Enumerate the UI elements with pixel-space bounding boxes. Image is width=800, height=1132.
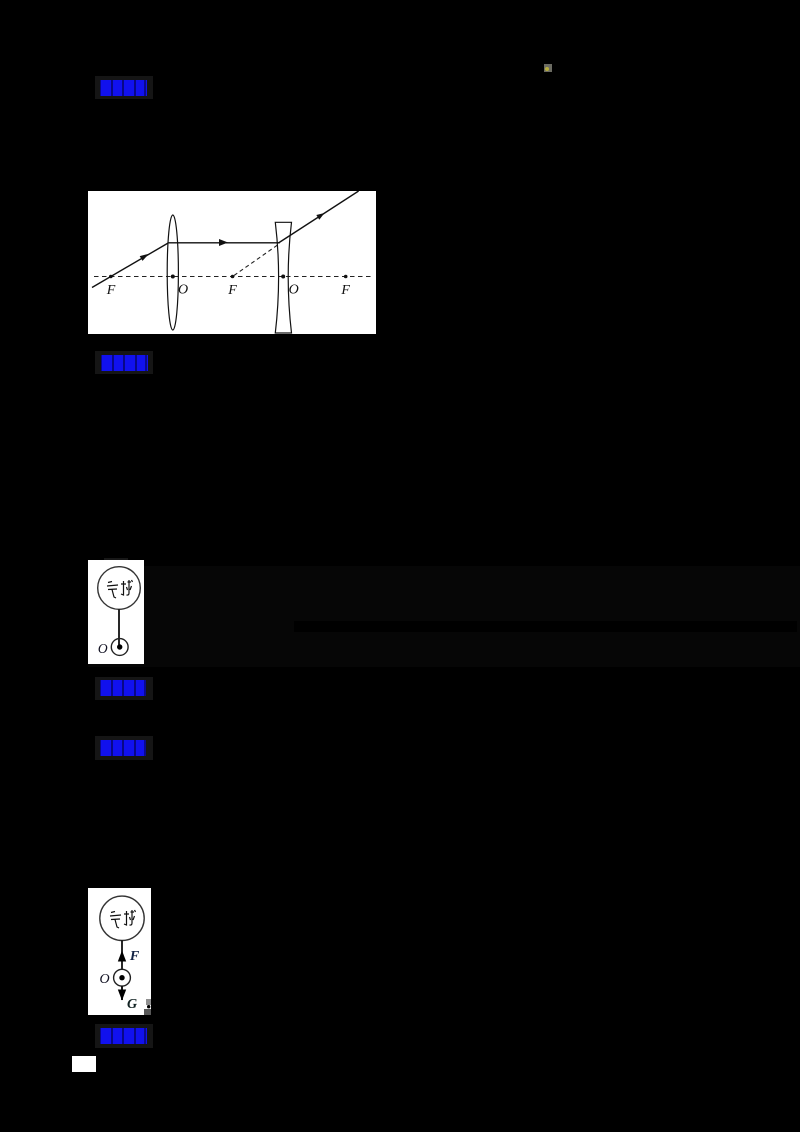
node pivot circle O [111,639,128,656]
node faint smudge above balloon box 1 [104,558,128,560]
node convex lens L1 [167,215,178,330]
node label back 3 [95,677,153,700]
svg-text:F: F [340,283,350,298]
node focal point F2 dot [231,275,235,279]
node concave lens L2 [275,222,291,333]
node focal point F3 dot [344,275,348,279]
node balloon text qi [110,912,121,929]
wire dashed back-extension to F [234,244,280,276]
node arrowhead on diverging ray [316,213,324,220]
node arrowhead on incoming ray [140,254,149,261]
wire horizontal ray between lenses [169,242,280,244]
node black fragment dot [147,1005,150,1008]
node icon square with yellow dot (top) [544,64,552,72]
svg-text:F: F [106,283,116,298]
node balloon figure box 2 [88,888,151,1015]
svg-text:F: F [227,283,237,298]
node band: faint table-row strip behind divider [88,566,800,667]
node balloon figure box 1 [88,560,144,664]
node lens center O1 dot [171,275,175,279]
wire incoming ray through F [92,243,169,288]
wire string [118,609,120,647]
node blue label 5 [100,1028,147,1044]
node lens center O2 dot [281,275,285,279]
node up arrowhead F [118,951,126,962]
node arrowhead on horizontal ray [219,239,228,246]
node label back 2 [95,351,153,374]
node blue label 3 [100,680,146,696]
node balloon text qiu [124,910,136,925]
node small white box bottom-left [72,1056,96,1072]
node label back 1 [95,76,153,99]
node label back 5 [95,1024,153,1048]
node pivot dot [119,975,124,980]
node blue label 4 [100,740,146,756]
svg-text:G: G [127,997,137,1012]
wire force line lower [121,986,123,1000]
wire diverging ray after concave lens [278,191,358,243]
node blue label 2 [101,355,148,371]
node down arrowhead G [118,990,126,1001]
svg-text:F: F [129,949,140,964]
node balloon text qiu [121,580,133,595]
svg-text:O: O [98,641,108,656]
node balloon circle [100,896,144,940]
svg-text:O: O [289,283,299,298]
node balloon text qi [107,582,118,599]
node gray fragment upper [146,999,151,1005]
wire divider bar [294,621,797,632]
wire string and force line [121,940,123,1000]
node pivot circle O [114,969,131,986]
node gray fragment lower [144,1009,151,1015]
node focal point F1 dot [109,275,113,279]
node balloon circle [98,567,141,610]
node blue label 1 [100,80,147,96]
node lens figure box [88,191,376,334]
node pivot dot [117,644,122,649]
svg-text:O: O [178,283,188,298]
svg-text:O: O [99,972,109,987]
wire optical axis (dashed) [94,276,372,278]
node label back 4 [95,736,153,760]
